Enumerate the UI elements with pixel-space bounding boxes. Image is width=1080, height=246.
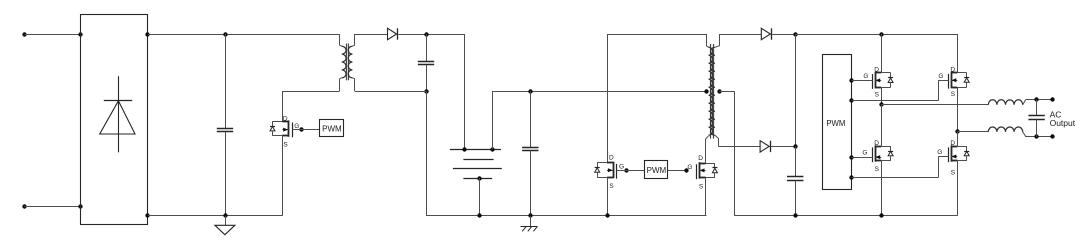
- label Q1 S: [283, 141, 288, 148]
- wire battery to center tap rail: [492, 91, 706, 149]
- capacitor C4: [787, 146, 803, 216]
- label Q3 G: [687, 164, 692, 171]
- svg-text:PWM: PWM: [647, 166, 667, 175]
- node battery plus right: [490, 147, 494, 151]
- node bridge input pin top: [78, 32, 82, 36]
- label U2 PWM: [647, 166, 667, 175]
- wire L2 to output bottom: [1026, 136, 1053, 138]
- label M3 D: [874, 140, 879, 147]
- ground earth symbol: [521, 216, 538, 231]
- svg-text:D: D: [698, 155, 703, 162]
- transformer T1 primary: [339, 34, 346, 91]
- transistor M3: [873, 145, 894, 162]
- node C1 bottom junction: [223, 213, 227, 217]
- node C2 bottom junction: [424, 89, 428, 93]
- node U3 pin1: [849, 78, 853, 82]
- capacitor C2: [418, 34, 434, 91]
- label M4 S: [951, 169, 956, 176]
- svg-text:PWM: PWM: [826, 119, 845, 128]
- svg-text:G: G: [938, 73, 943, 80]
- wire U3 pin4 to M4 gate: [852, 157, 949, 178]
- wire T1 secondary top: [355, 34, 388, 36]
- inductor L2: [988, 127, 1026, 137]
- wire T2 secondary top to D3: [720, 34, 762, 36]
- svg-text:G: G: [619, 164, 624, 171]
- label AC Output: [1050, 109, 1076, 127]
- wire M2 drain lead: [957, 34, 959, 73]
- node M1 drain junction: [879, 32, 883, 36]
- label M2 S: [951, 91, 956, 98]
- transformer T2 secondary: [711, 34, 720, 146]
- wire M3 drain lead: [881, 105, 883, 147]
- node C1 top junction: [223, 32, 227, 36]
- label U1 PWM: [322, 124, 342, 133]
- svg-text:D: D: [950, 140, 955, 147]
- label M1 G: [863, 73, 868, 80]
- wire M1 source to phase A: [881, 88, 883, 105]
- svg-text:D: D: [283, 115, 288, 122]
- pwm controller U2 box: [645, 161, 668, 179]
- wire T1 primary bottom to Q1 drain: [282, 91, 339, 121]
- transformer T1 secondary: [348, 34, 355, 91]
- svg-text:G: G: [687, 164, 692, 171]
- label Q3 D: [698, 155, 703, 162]
- wire HV vertical: [795, 34, 797, 146]
- node Q1 gate: [299, 127, 303, 131]
- svg-text:S: S: [875, 91, 880, 98]
- capacitor C1: [217, 34, 233, 216]
- node battery ground junction: [477, 213, 481, 217]
- label Q2 D: [609, 155, 614, 162]
- node AC input top terminal: [22, 32, 80, 36]
- node HV rail top junction: [793, 32, 797, 36]
- wire top rail DC link: [148, 34, 340, 36]
- node C3 top junction: [528, 89, 532, 93]
- node T2 center tap left: [704, 89, 708, 93]
- svg-text:D: D: [874, 66, 879, 73]
- wire M3 source to ground rail: [881, 161, 883, 216]
- node C3 bottom junction: [528, 213, 532, 217]
- label Q3 S: [699, 183, 704, 190]
- pwm controller U1 box: [320, 120, 344, 137]
- wire top rail HV: [795, 34, 957, 36]
- wire PWM to Q3 gate: [668, 170, 687, 172]
- node battery plus left: [462, 147, 466, 151]
- wire battery minus to ground rail: [479, 178, 481, 216]
- diode D2: [388, 28, 398, 39]
- ground chassis under C1: [215, 216, 235, 235]
- svg-text:S: S: [951, 91, 956, 98]
- capacitor C5: [1028, 99, 1044, 136]
- transformer T2 core: [711, 44, 714, 139]
- node AC output top terminal: [1050, 97, 1054, 101]
- svg-text:S: S: [283, 141, 288, 148]
- inductor L1: [988, 99, 1026, 104]
- wire Q2 drain to T2 primary top: [607, 34, 706, 163]
- node D4 junction: [793, 144, 797, 148]
- svg-text:D: D: [874, 140, 879, 147]
- transistor M4: [949, 145, 970, 162]
- node M3 source junction: [879, 213, 883, 217]
- wire Q2 gate to PWM: [617, 170, 645, 172]
- wire T2 secondary bottom to D4: [718, 146, 760, 148]
- label M1 S: [875, 91, 880, 98]
- diode D3: [761, 28, 771, 39]
- label Q2 G: [619, 164, 624, 171]
- svg-text:G: G: [294, 123, 299, 130]
- label M2 D: [950, 66, 955, 73]
- node U3 pin3: [849, 155, 853, 159]
- transistor Q2: [595, 162, 617, 179]
- label U3 PWM: [826, 119, 845, 128]
- node C2 top junction: [424, 32, 428, 36]
- bridge rectifier BR1 box: [81, 15, 148, 225]
- transistor M1: [873, 72, 894, 89]
- node AC input bottom terminal: [22, 204, 80, 208]
- wire U3 pin2 to M2 gate: [852, 80, 949, 101]
- wire U3 pin3 to M3 gate: [852, 157, 873, 159]
- wire D2 cathode to battery corner: [398, 34, 464, 36]
- wire charge lead to battery: [464, 34, 466, 149]
- wire Q1 source to ground rail: [282, 136, 284, 216]
- wire D4 cathode: [771, 146, 795, 148]
- node bridge output pin bottom: [145, 213, 149, 217]
- node C4 ground junction: [793, 213, 797, 217]
- node AC output bottom terminal: [1050, 134, 1054, 138]
- wire Q3 drain to T2 primary bottom: [706, 136, 709, 163]
- svg-text:G: G: [937, 149, 942, 156]
- wire M1 drain lead: [881, 34, 883, 73]
- svg-text:S: S: [699, 183, 704, 190]
- label M3 S: [875, 166, 880, 173]
- wire D3 cathode to HV rail: [772, 34, 795, 36]
- node phase B: [955, 129, 959, 133]
- node U3 pin2: [849, 98, 853, 102]
- wire bottom rail section 1: [148, 215, 282, 217]
- svg-text:PWM: PWM: [322, 124, 342, 133]
- svg-text:Output: Output: [1050, 118, 1076, 128]
- wire M4 source to ground rail: [957, 161, 959, 216]
- transistor Q1: [270, 120, 293, 137]
- svg-text:D: D: [950, 66, 955, 73]
- wire phase A to L1: [881, 104, 988, 106]
- transistor M2: [949, 72, 970, 89]
- svg-text:S: S: [951, 169, 956, 176]
- label Q1 G: [294, 123, 299, 130]
- svg-text:G: G: [862, 150, 867, 157]
- label M2 G: [938, 73, 943, 80]
- label M3 G: [862, 150, 867, 157]
- label M4 G: [937, 149, 942, 156]
- wire Q1 gate to PWM: [292, 129, 320, 131]
- wire phase B to L2: [957, 131, 988, 133]
- svg-text:G: G: [863, 73, 868, 80]
- capacitor C3: [522, 91, 538, 216]
- node U3 pin4: [849, 175, 853, 179]
- wire C2 junction to ground rail: [426, 91, 428, 216]
- node Q3 gate: [684, 168, 688, 172]
- wire bottom rail section 2: [426, 215, 706, 217]
- wire bottom rail section 3: [735, 215, 958, 217]
- pwm controller U3 box: [823, 55, 852, 190]
- node Q2 gate: [624, 168, 628, 172]
- node phase A: [879, 102, 883, 106]
- node C5 bottom junction: [1034, 134, 1038, 138]
- label M4 D: [950, 140, 955, 147]
- label Q2 S: [609, 183, 614, 190]
- node bridge output pin top: [145, 32, 149, 36]
- battery BT1: [450, 150, 502, 179]
- label M1 D: [874, 66, 879, 73]
- transformer T2 primary: [706, 34, 713, 135]
- wire Q2 source to ground rail: [607, 177, 609, 216]
- bridge rectifier BR1 diode: [100, 76, 135, 152]
- node T2 center tap right: [717, 89, 721, 93]
- transistor Q3: [697, 162, 718, 179]
- wire T1 secondary bottom: [355, 91, 426, 93]
- diode D4: [760, 141, 770, 152]
- wire Q3 source to ground rail: [705, 178, 708, 216]
- wire M4 drain lead: [957, 132, 959, 146]
- svg-text:D: D: [609, 155, 614, 162]
- node Q2 source junction: [605, 213, 609, 217]
- wire M2 source to phase B: [957, 87, 959, 132]
- transformer T1 core: [347, 44, 349, 81]
- label Q1 D: [283, 115, 288, 122]
- wire U3 pin1 to M1 gate: [852, 80, 873, 82]
- node C5 top junction: [1034, 97, 1038, 101]
- node bridge input pin bottom: [78, 204, 82, 208]
- node battery minus: [477, 176, 481, 180]
- wire T2 center tap to ground rail: [719, 91, 734, 216]
- svg-text:S: S: [875, 166, 880, 173]
- wire L1 to output top: [1026, 99, 1053, 101]
- svg-text:S: S: [609, 183, 614, 190]
